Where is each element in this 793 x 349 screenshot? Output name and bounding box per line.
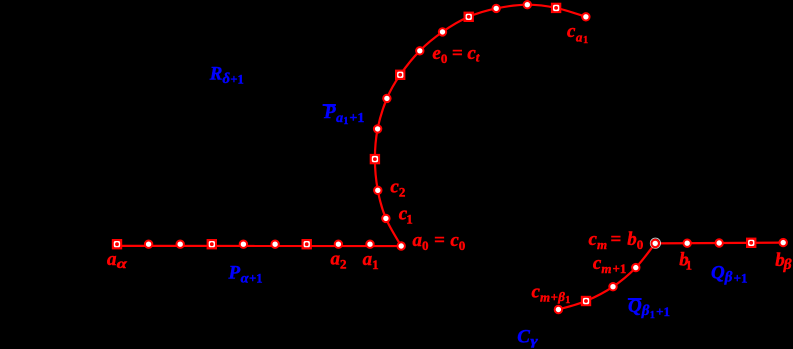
svg-text:cm=b0: cm=b0	[589, 229, 644, 252]
svg-text:e0=ct: e0=ct	[432, 43, 479, 66]
svg-text:a0=c0: a0=c0	[413, 230, 466, 253]
